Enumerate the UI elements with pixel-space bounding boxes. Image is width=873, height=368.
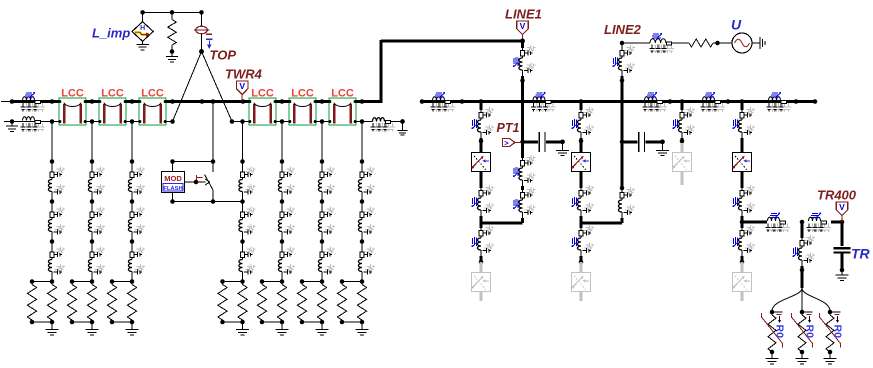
svg-text:V: V bbox=[839, 202, 845, 212]
svg-text:V: V bbox=[520, 21, 526, 31]
svg-text:LCC: LCC bbox=[251, 88, 274, 100]
svg-text:R0: R0 bbox=[803, 325, 815, 339]
svg-text:LCC: LCC bbox=[61, 88, 84, 100]
svg-text:MOD: MOD bbox=[164, 174, 182, 183]
svg-text:LCC: LCC bbox=[291, 88, 314, 100]
svg-text:LCC: LCC bbox=[101, 88, 124, 100]
svg-text:PT1: PT1 bbox=[497, 121, 520, 135]
svg-text:LCC: LCC bbox=[331, 88, 354, 100]
svg-text:LINE2: LINE2 bbox=[604, 22, 642, 37]
svg-text:H: H bbox=[140, 25, 145, 32]
svg-text:R0: R0 bbox=[773, 325, 785, 339]
svg-text:>: > bbox=[504, 138, 509, 147]
svg-text:L_imp: L_imp bbox=[92, 26, 130, 41]
svg-text:TR400: TR400 bbox=[817, 188, 857, 203]
svg-text:TWR4: TWR4 bbox=[225, 67, 263, 82]
svg-text:LCC: LCC bbox=[141, 88, 164, 100]
svg-text:TR: TR bbox=[851, 246, 871, 262]
svg-text:LINE1: LINE1 bbox=[505, 7, 542, 22]
svg-text:TOP: TOP bbox=[210, 48, 237, 63]
svg-text:R0: R0 bbox=[831, 325, 843, 339]
svg-text:FLASH: FLASH bbox=[163, 186, 182, 192]
svg-text:U: U bbox=[731, 17, 742, 33]
svg-text:V: V bbox=[239, 81, 245, 91]
